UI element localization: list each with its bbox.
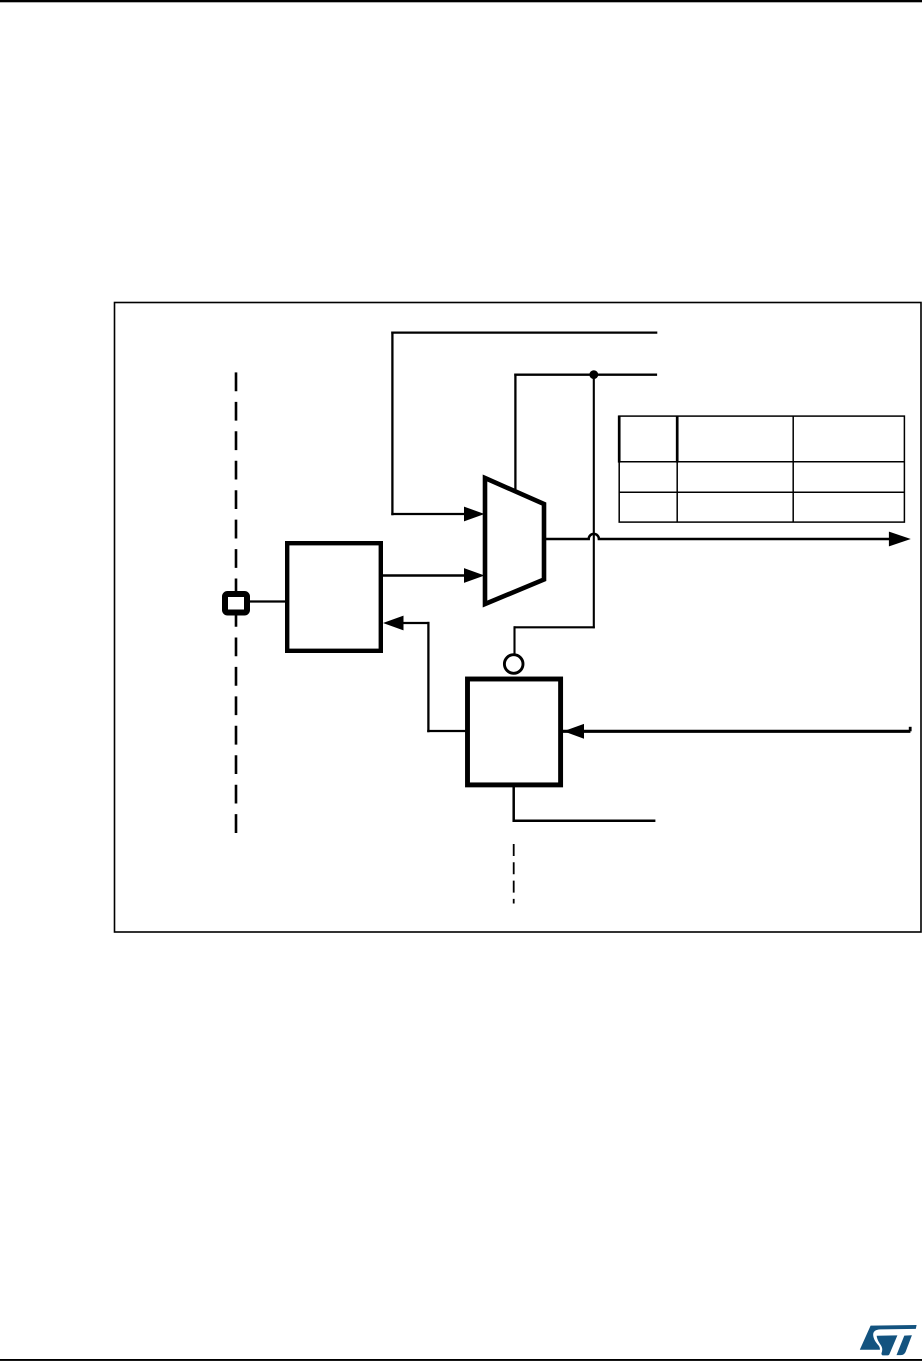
footer rule xyxy=(0,1359,922,1361)
wire: top feedback horizontal xyxy=(391,331,657,333)
block box1 xyxy=(287,543,381,651)
dashed boundary line left xyxy=(235,372,238,833)
dashed boundary line bottom xyxy=(513,844,515,904)
mux trapezoid xyxy=(485,478,544,604)
figure frame xyxy=(115,303,922,933)
arrowhead into box2 xyxy=(564,724,585,739)
inverter bubble xyxy=(504,655,523,674)
wire: vertical through hop down xyxy=(593,375,595,629)
wire: mux output with hop xyxy=(544,534,890,539)
wire: second horizontal with junction xyxy=(514,374,657,376)
header rule xyxy=(0,0,922,2)
wire: box2 left to up xyxy=(427,730,466,732)
wire: long input into box2 right side xyxy=(563,730,910,733)
wire: box1 output to mux lower input xyxy=(383,574,466,577)
wire: into mux upper input xyxy=(391,513,465,515)
wire: bottom horizontal right xyxy=(513,820,656,823)
wire: horizontal to bubble column xyxy=(514,626,595,628)
table header cell thick border xyxy=(619,416,677,463)
block box2 xyxy=(468,679,561,785)
arrowhead mux upper input xyxy=(464,507,485,522)
wire: feedback vertical left xyxy=(391,332,393,516)
arrowhead into box1 xyxy=(383,616,404,631)
wire: box2 bottom down xyxy=(512,786,515,822)
wire end tick xyxy=(909,727,912,732)
wire: pad to box1 xyxy=(249,600,286,602)
arrowhead mux lower input xyxy=(464,568,485,583)
wire: vertical into bubble xyxy=(513,626,515,654)
junction dot xyxy=(589,370,598,379)
wire: vertical into mux top xyxy=(514,374,516,496)
wire: into box1 right side xyxy=(402,622,430,624)
ST logo xyxy=(860,1325,917,1355)
table grid xyxy=(619,416,904,522)
wire: vertical up from box2 left xyxy=(427,622,429,732)
io pad square xyxy=(225,594,247,613)
arrowhead mux output right xyxy=(889,532,911,547)
